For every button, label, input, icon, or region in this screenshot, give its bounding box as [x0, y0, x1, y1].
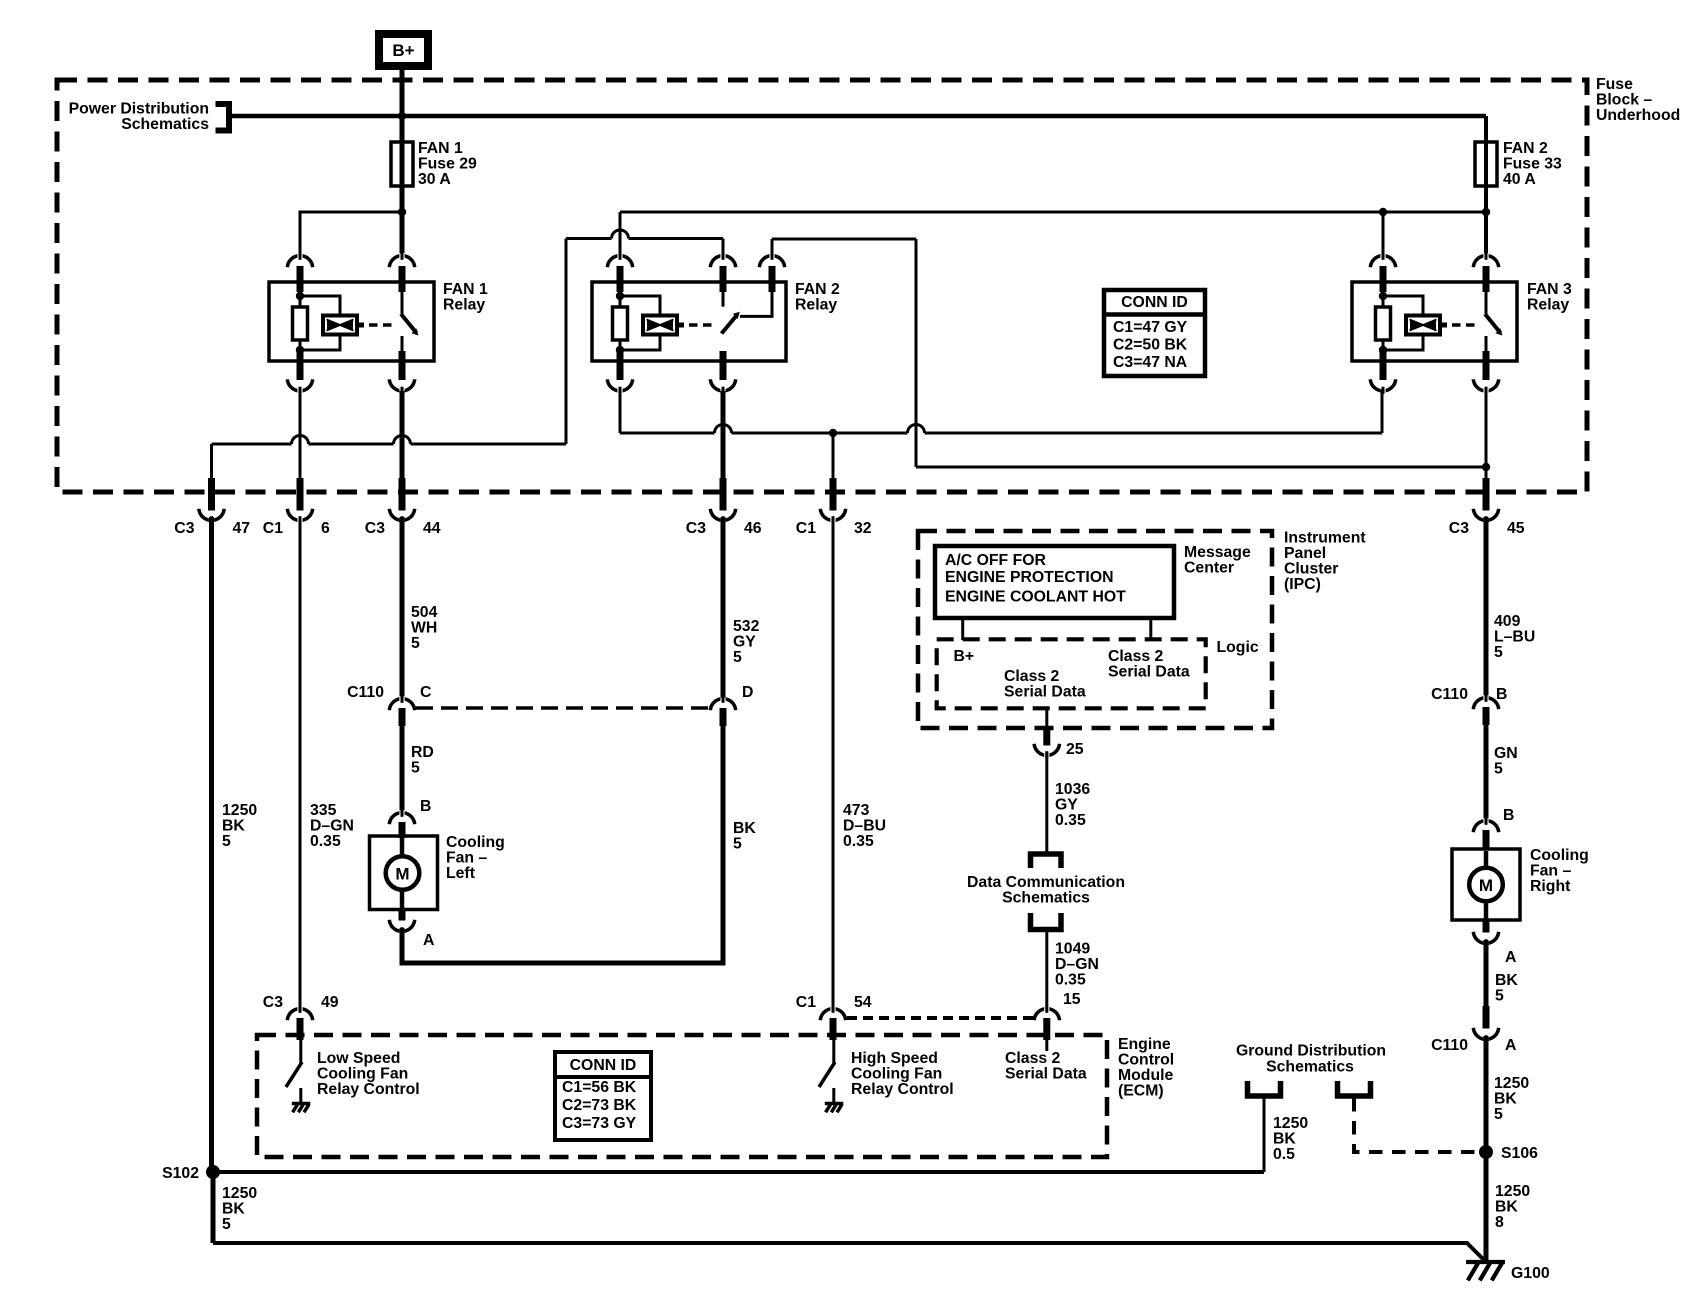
wire message center serial data to logic — [1149, 618, 1152, 640]
wire bottom ground rail to G100 — [213, 1243, 1484, 1260]
connector C3 pin 46 — [710, 478, 735, 524]
svg-text:25: 25 — [1066, 741, 1084, 758]
svg-text:FAN 2: FAN 2 — [1503, 140, 1548, 157]
svg-text:409: 409 — [1494, 613, 1521, 630]
connector below FAN 1 pin x=300 — [287, 351, 312, 394]
connector IPC pin 25 — [1034, 729, 1059, 759]
svg-text:6: 6 — [321, 520, 330, 537]
svg-text:Cooling Fan: Cooling Fan — [851, 1066, 942, 1083]
off-page bracket data communication bottom — [1031, 913, 1062, 930]
svg-text:Class 2: Class 2 — [1005, 1050, 1061, 1067]
label GN 5 — [1494, 745, 1518, 778]
connector below FAN 3 pin x=1486 — [1473, 351, 1498, 394]
svg-text:C1: C1 — [796, 520, 816, 537]
svg-text:Serial Data: Serial Data — [1005, 1066, 1087, 1083]
svg-text:C110: C110 — [1431, 686, 1468, 703]
motor cooling fan right — [1452, 849, 1520, 920]
svg-text:B+: B+ — [954, 648, 975, 665]
svg-text:BK: BK — [1273, 1131, 1296, 1148]
svg-text:5: 5 — [1495, 988, 1504, 1005]
wire down to FAN2 relay coil pin — [619, 212, 622, 254]
svg-text:1250: 1250 — [222, 1185, 257, 1202]
svg-text:FAN 2: FAN 2 — [795, 281, 840, 298]
svg-text:L–BU: L–BU — [1494, 629, 1535, 646]
wire RD 5 C110 C to left fan B — [400, 726, 405, 812]
label 504 WH 5 — [411, 604, 438, 652]
off-page bracket ground distribution right — [1338, 1081, 1371, 1096]
wire FAN2 common ground path — [212, 436, 567, 482]
wire IPC class 2 serial data out — [1045, 708, 1048, 729]
label pin A right fan — [1505, 949, 1516, 966]
svg-text:5: 5 — [1494, 761, 1503, 778]
fuse FAN 1 Fuse 29 30A — [391, 142, 413, 186]
svg-text:RD: RD — [411, 744, 434, 761]
label Ground Distribution Schematics — [1236, 1043, 1386, 1076]
wire fuse 33 feed through to FAN3 relay switch pin — [1484, 116, 1488, 254]
svg-text:Serial Data: Serial Data — [1108, 664, 1190, 681]
svg-text:B: B — [1496, 686, 1507, 703]
connector ECM pin 15 — [1034, 1006, 1059, 1041]
wire FAN3 switch out — [1485, 391, 1488, 467]
FAN 3 relay switch — [1485, 292, 1503, 352]
label C3 pin 47 — [174, 520, 250, 537]
svg-text:G100: G100 — [1511, 1265, 1550, 1282]
wire GN 5 to right fan B — [1484, 725, 1489, 820]
svg-text:0.35: 0.35 — [1055, 972, 1086, 989]
svg-text:BK: BK — [733, 820, 756, 837]
svg-text:30 A: 30 A — [418, 171, 451, 188]
connector C110 pin C — [389, 696, 414, 727]
label 1036 GY 0.35 — [1055, 781, 1090, 829]
connector above FAN 1 pin x=402 — [389, 253, 414, 293]
svg-text:FAN 1: FAN 1 — [418, 140, 463, 157]
FAN 2 relay suppression module — [620, 296, 677, 350]
svg-text:C1=47 GY: C1=47 GY — [1113, 319, 1188, 336]
svg-text:M: M — [1479, 876, 1493, 895]
label 473 D-BU 0.35 — [843, 802, 886, 850]
connector above FAN 3 pin x=1383 — [1370, 253, 1395, 293]
wire 1250 BK 8 S106 to G100 — [1484, 1152, 1489, 1262]
svg-text:5: 5 — [222, 833, 231, 850]
svg-text:B: B — [420, 798, 431, 815]
relay FAN 3 box — [1352, 282, 1517, 361]
svg-text:Fuse 29: Fuse 29 — [418, 156, 477, 173]
label 1250 BK 0.5 — [1273, 1115, 1308, 1163]
label pin B left fan — [420, 798, 431, 815]
ground high speed driver — [825, 1104, 844, 1113]
label S106 — [1501, 1145, 1538, 1162]
wire branch to FAN1 relay coil — [300, 212, 402, 254]
high speed cooling fan relay control switch — [819, 1040, 835, 1103]
svg-text:45: 45 — [1507, 520, 1525, 537]
svg-text:C2=73 BK: C2=73 BK — [562, 1097, 637, 1114]
svg-text:Fan –: Fan – — [446, 850, 487, 867]
svg-text:FAN 3: FAN 3 — [1527, 281, 1572, 298]
svg-text:(ECM): (ECM) — [1118, 1083, 1164, 1100]
fuse FAN 2 Fuse 33 40A — [1475, 142, 1497, 186]
connector below FAN 2 pin x=723 — [710, 351, 735, 394]
wire right fan feed to C3 45 — [1485, 467, 1488, 481]
label FAN 1 Relay — [443, 281, 488, 314]
connector left fan pin B — [389, 810, 414, 839]
svg-text:(IPC): (IPC) — [1284, 576, 1321, 593]
off-page bracket to power distribution — [216, 104, 230, 131]
label Class 2 Serial Data right — [1108, 648, 1190, 681]
svg-text:D: D — [742, 684, 753, 701]
label pin B right fan — [1503, 807, 1514, 824]
wire FAN2 switch out to C3 46 — [721, 391, 726, 481]
svg-text:0.35: 0.35 — [1055, 812, 1086, 829]
svg-text:5: 5 — [1494, 644, 1503, 661]
svg-text:Serial Data: Serial Data — [1004, 684, 1086, 701]
svg-text:S106: S106 — [1501, 1145, 1538, 1162]
svg-text:Class 2: Class 2 — [1004, 668, 1060, 685]
low speed cooling fan relay control switch — [286, 1040, 302, 1103]
svg-text:0.35: 0.35 — [843, 833, 874, 850]
logic block boundary (dashed) — [937, 639, 1206, 708]
FAN 1 relay coil junction top — [296, 292, 304, 300]
connector right fan pin B — [1473, 818, 1498, 851]
svg-text:D–GN: D–GN — [310, 818, 354, 835]
svg-text:Fuse: Fuse — [1596, 76, 1633, 93]
FAN 1 relay coil resistor — [293, 292, 308, 352]
connector C110 pin D — [710, 696, 735, 727]
connector C3 pin 45 — [1473, 478, 1498, 524]
wire left fan A to C110 D — [402, 726, 723, 963]
svg-text:Class 2: Class 2 — [1108, 648, 1164, 665]
svg-text:GY: GY — [733, 634, 756, 651]
svg-text:Center: Center — [1184, 560, 1234, 577]
label FAN 3 Relay — [1527, 281, 1572, 314]
junction fuse 33 output — [1482, 208, 1490, 216]
svg-text:A: A — [1505, 1037, 1516, 1054]
label High Speed Cooling Fan Relay Control — [851, 1050, 954, 1098]
svg-text:C1: C1 — [263, 520, 283, 537]
label S102 — [162, 1165, 199, 1182]
ground low speed driver — [292, 1104, 311, 1113]
wire 335 D-GN 0.35 from C1 6 to C3 49 — [299, 517, 302, 1008]
message center display box — [935, 546, 1174, 618]
wire B+ down through fuse 29 — [400, 70, 405, 254]
wire BK 5 right fan A to C110 A — [1484, 940, 1489, 1010]
svg-text:Underhood: Underhood — [1596, 107, 1680, 124]
wire 409 L-BU 5 from C3 45 to C110 B — [1484, 517, 1489, 697]
label C3 pin 45 — [1449, 520, 1525, 537]
FAN 3 relay coil junction bottom — [1379, 346, 1387, 354]
svg-text:C3: C3 — [174, 520, 194, 537]
wire S102 ground bus — [213, 1170, 1264, 1174]
svg-text:5: 5 — [733, 649, 742, 666]
label Cooling Fan - Right — [1530, 847, 1589, 895]
label Engine Control Module (ECM) — [1118, 1036, 1174, 1100]
label 1250 BK 5 bottom — [222, 1185, 257, 1233]
relay FAN 1 box — [269, 282, 434, 361]
label A/C OFF FOR ENGINE PROTECTION ENGINE COOLANT HOT — [945, 552, 1126, 606]
svg-text:8: 8 — [1495, 1214, 1504, 1231]
junction fuse 29 output — [398, 208, 406, 216]
svg-text:S102: S102 — [162, 1165, 199, 1182]
splice S102 — [206, 1165, 220, 1179]
wire 1250 BK 0.5 to S102 bus — [1263, 1098, 1266, 1172]
svg-text:Cluster: Cluster — [1284, 561, 1338, 578]
svg-text:BK: BK — [1495, 972, 1518, 989]
connector below FAN 3 pin x=1383 — [1370, 351, 1395, 394]
svg-text:High Speed: High Speed — [851, 1050, 938, 1067]
svg-text:B+: B+ — [392, 41, 414, 60]
svg-text:C110: C110 — [1431, 1037, 1468, 1054]
connector C110 pin A — [1473, 1006, 1498, 1043]
svg-text:C3=73 GY: C3=73 GY — [562, 1115, 637, 1132]
svg-text:Module: Module — [1118, 1067, 1173, 1084]
svg-text:5: 5 — [411, 635, 420, 652]
svg-text:40 A: 40 A — [1503, 171, 1536, 188]
FAN 1 relay suppression module — [300, 296, 357, 350]
wire FAN1 switch out to C3 44 — [400, 391, 405, 481]
label pin A left fan — [423, 932, 434, 949]
svg-text:5: 5 — [411, 760, 420, 777]
instrument panel cluster boundary (dashed) — [918, 531, 1272, 728]
dashed connector line C110 — [416, 706, 710, 710]
connector above FAN 3 pin x=1486 — [1473, 253, 1498, 293]
FAN 2 relay coil junction bottom — [616, 346, 624, 354]
wire FAN1 coil low side to C1 6 — [299, 391, 302, 481]
svg-text:Ground Distribution: Ground Distribution — [1236, 1043, 1386, 1060]
svg-text:Logic: Logic — [1217, 639, 1259, 656]
svg-text:C3=47 NA: C3=47 NA — [1113, 354, 1187, 371]
label Cooling Fan - Left — [446, 834, 505, 882]
svg-text:A: A — [1505, 949, 1516, 966]
connector ECM pin C3 49 — [287, 1006, 312, 1041]
wire 504 WH 5 from C3 44 to C110 C — [400, 517, 405, 698]
svg-text:Low Speed: Low Speed — [317, 1050, 400, 1067]
label 1250 BK 5 left — [222, 802, 257, 850]
FAN 2 relay switch — [722, 292, 773, 334]
FAN 2 relay actuator link — [677, 323, 714, 328]
label 409 L-BU 5 — [1494, 613, 1535, 661]
svg-text:Relay: Relay — [795, 297, 837, 314]
connector ECM pin C1 54 — [820, 1006, 845, 1041]
svg-text:Panel: Panel — [1284, 545, 1326, 562]
junction coil low side to C1 32 — [829, 429, 837, 437]
svg-text:C2=50 BK: C2=50 BK — [1113, 337, 1188, 354]
svg-text:1250: 1250 — [1494, 1075, 1529, 1092]
svg-text:Control: Control — [1118, 1052, 1174, 1069]
svg-text:D–GN: D–GN — [1055, 956, 1099, 973]
svg-text:C3: C3 — [686, 520, 706, 537]
connector C3 pin 44 — [389, 478, 414, 524]
svg-text:M: M — [395, 865, 409, 884]
svg-text:BK: BK — [222, 1201, 245, 1218]
connector below FAN 1 pin x=402 — [389, 351, 414, 394]
label Low Speed Cooling Fan Relay Control — [317, 1050, 420, 1098]
svg-text:C3: C3 — [1449, 520, 1469, 537]
svg-text:Relay: Relay — [1527, 297, 1569, 314]
svg-text:C3: C3 — [365, 520, 385, 537]
svg-text:Cooling: Cooling — [1530, 847, 1589, 864]
label FAN 1 Fuse 29 30 A — [418, 140, 477, 188]
svg-text:Left: Left — [446, 865, 476, 882]
svg-text:5: 5 — [222, 1216, 231, 1233]
label C110 A right — [1431, 1037, 1516, 1054]
label FAN 2 Relay — [795, 281, 840, 314]
svg-text:Engine: Engine — [1118, 1036, 1171, 1053]
battery positive voltage symbol B+ — [379, 34, 428, 66]
off-page bracket ground distribution left — [1248, 1081, 1281, 1096]
connector right fan pin A — [1473, 920, 1498, 947]
svg-text:C1: C1 — [796, 994, 816, 1011]
svg-text:1250: 1250 — [1273, 1115, 1308, 1132]
off-page bracket data communication top — [1031, 854, 1062, 868]
label Logic — [1217, 639, 1259, 656]
svg-text:49: 49 — [321, 994, 339, 1011]
svg-text:C110: C110 — [347, 684, 384, 701]
label Message Center — [1184, 544, 1251, 577]
FAN 1 relay coil junction bottom — [296, 346, 304, 354]
label C110 left — [347, 684, 384, 701]
svg-text:B: B — [1503, 807, 1514, 824]
svg-text:C1=56 BK: C1=56 BK — [562, 1079, 637, 1096]
wire 1036 GY 0.35 pin 25 to data comm — [1045, 752, 1048, 853]
label C1 54 — [796, 994, 872, 1011]
label RD 5 — [411, 744, 434, 777]
svg-text:Power Distribution: Power Distribution — [69, 101, 209, 118]
label pin 15 — [1063, 991, 1081, 1008]
wire 473 D-BU 0.35 from C1 32 to C1 54 — [832, 517, 835, 1008]
label Power Distribution Schematics — [69, 101, 210, 134]
junction right fan feed — [1482, 463, 1490, 471]
svg-text:Schematics: Schematics — [1266, 1059, 1354, 1076]
junction B+ feed to fuse 29 — [398, 112, 406, 120]
label 335 D-GN 0.35 — [310, 802, 354, 850]
svg-text:Fan –: Fan – — [1530, 863, 1571, 880]
label G100 — [1511, 1265, 1550, 1282]
label Class 2 Serial Data ECM — [1005, 1050, 1087, 1083]
svg-text:C3: C3 — [263, 994, 283, 1011]
wire 532 GY 5 from C3 46 to C110 D — [721, 517, 726, 698]
conn id table fuse block — [1104, 290, 1205, 376]
splice S106 — [1479, 1145, 1493, 1159]
svg-text:Message: Message — [1184, 544, 1251, 561]
FAN 2 relay coil junction top — [616, 292, 624, 300]
svg-text:Right: Right — [1530, 878, 1571, 895]
wire junction to C1 32 — [832, 433, 835, 481]
label C3 pin 46 — [686, 520, 762, 537]
svg-text:ENGINE COOLANT HOT: ENGINE COOLANT HOT — [945, 589, 1126, 606]
wire 1250 BK 5 S102 down — [211, 1172, 216, 1243]
svg-text:Instrument: Instrument — [1284, 530, 1366, 547]
svg-text:1250: 1250 — [1495, 1183, 1530, 1200]
fuse block underhood boundary (dashed) — [57, 80, 1587, 492]
svg-text:GN: GN — [1494, 745, 1518, 762]
wire class 2 serial data into ECM — [1045, 1040, 1048, 1051]
svg-text:335: 335 — [310, 802, 337, 819]
wire FAN2 relay common pin feed — [566, 230, 723, 444]
svg-text:47: 47 — [233, 520, 251, 537]
svg-text:C: C — [420, 684, 431, 701]
label C110 right — [1431, 686, 1468, 703]
connector above FAN 2 pin x=772 — [759, 253, 784, 293]
svg-text:Cooling: Cooling — [446, 834, 505, 851]
svg-text:Data Communication: Data Communication — [967, 874, 1125, 891]
svg-text:BK: BK — [222, 818, 245, 835]
connector C1 pin 32 — [820, 478, 845, 524]
label 1049 D-GN 0.35 — [1055, 941, 1099, 989]
wire 1250 BK 5 C110 A to S106 — [1484, 1036, 1489, 1152]
svg-text:504: 504 — [411, 604, 438, 621]
svg-text:532: 532 — [733, 618, 760, 635]
FAN 1 relay switch — [401, 292, 419, 352]
svg-text:1036: 1036 — [1055, 781, 1090, 798]
label pin B right conn — [1496, 686, 1507, 703]
motor cooling fan left — [370, 836, 438, 910]
engine control module boundary (dashed) — [257, 1035, 1107, 1157]
wire FAN2/FAN3 coil low side bus — [620, 389, 1382, 433]
wire FAN2 relay NO contact to right fan feed — [772, 239, 916, 467]
label C1 pin 32 — [796, 520, 872, 537]
label pin C — [420, 684, 431, 701]
label B+ logic input — [954, 648, 975, 665]
label pin 25 — [1066, 741, 1084, 758]
connector left fan pin A — [389, 910, 414, 935]
svg-text:0.5: 0.5 — [1273, 1146, 1295, 1163]
connector above FAN 1 pin x=300 — [287, 253, 312, 293]
label Instrument Panel Cluster (IPC) — [1284, 530, 1366, 594]
FAN 1 relay actuator link — [357, 323, 394, 328]
svg-text:Schematics: Schematics — [121, 116, 209, 133]
label C1 pin 6 — [263, 520, 330, 537]
dashed ground wire to S106 — [1354, 1098, 1486, 1152]
svg-text:Relay Control: Relay Control — [317, 1081, 420, 1098]
wire 1049 D-GN 0.35 data comm to ECM 15 — [1045, 929, 1048, 1009]
svg-text:1250: 1250 — [222, 802, 257, 819]
wire power distribution bus — [232, 114, 1486, 119]
FAN 3 relay suppression module — [1383, 296, 1440, 350]
svg-text:Schematics: Schematics — [1002, 890, 1090, 907]
label BK 5 right — [1495, 972, 1518, 1005]
svg-text:44: 44 — [423, 520, 441, 537]
svg-text:473: 473 — [843, 802, 870, 819]
svg-text:Block –: Block – — [1596, 92, 1652, 109]
svg-text:CONN ID: CONN ID — [1121, 294, 1188, 311]
connector C1 pin 6 — [287, 478, 312, 524]
wire down to FAN3 relay coil pin — [1382, 212, 1385, 254]
label pin D — [742, 684, 753, 701]
wire 1250 BK 5 from C3 47 to S102 — [209, 517, 214, 1172]
svg-text:FAN 1: FAN 1 — [443, 281, 488, 298]
connector above FAN 2 pin x=723 — [710, 253, 735, 293]
label 532 GY 5 — [733, 618, 760, 666]
wire fuse 33 bus to FAN2/FAN3 coils — [620, 211, 1486, 214]
svg-text:Relay: Relay — [443, 297, 485, 314]
label Data Communication Schematics — [967, 874, 1125, 907]
svg-text:BK: BK — [1495, 1199, 1518, 1216]
label BK 5 left — [733, 820, 756, 853]
label Fuse Block - Underhood — [1596, 76, 1680, 124]
wire FAN2 NO to right fan feed — [916, 466, 1486, 469]
svg-text:46: 46 — [744, 520, 762, 537]
svg-text:Relay Control: Relay Control — [851, 1081, 954, 1098]
ground G100 — [1466, 1262, 1505, 1280]
svg-text:15: 15 — [1063, 991, 1081, 1008]
svg-text:Cooling Fan: Cooling Fan — [317, 1066, 408, 1083]
svg-text:0.35: 0.35 — [310, 833, 341, 850]
svg-text:GY: GY — [1055, 797, 1078, 814]
svg-text:Fuse 33: Fuse 33 — [1503, 156, 1562, 173]
label 1250 BK 5 right — [1494, 1075, 1529, 1123]
connector C110 pin B — [1473, 695, 1498, 726]
label Class 2 Serial Data lower — [1004, 668, 1086, 701]
svg-text:A/C OFF FOR: A/C OFF FOR — [945, 552, 1047, 569]
